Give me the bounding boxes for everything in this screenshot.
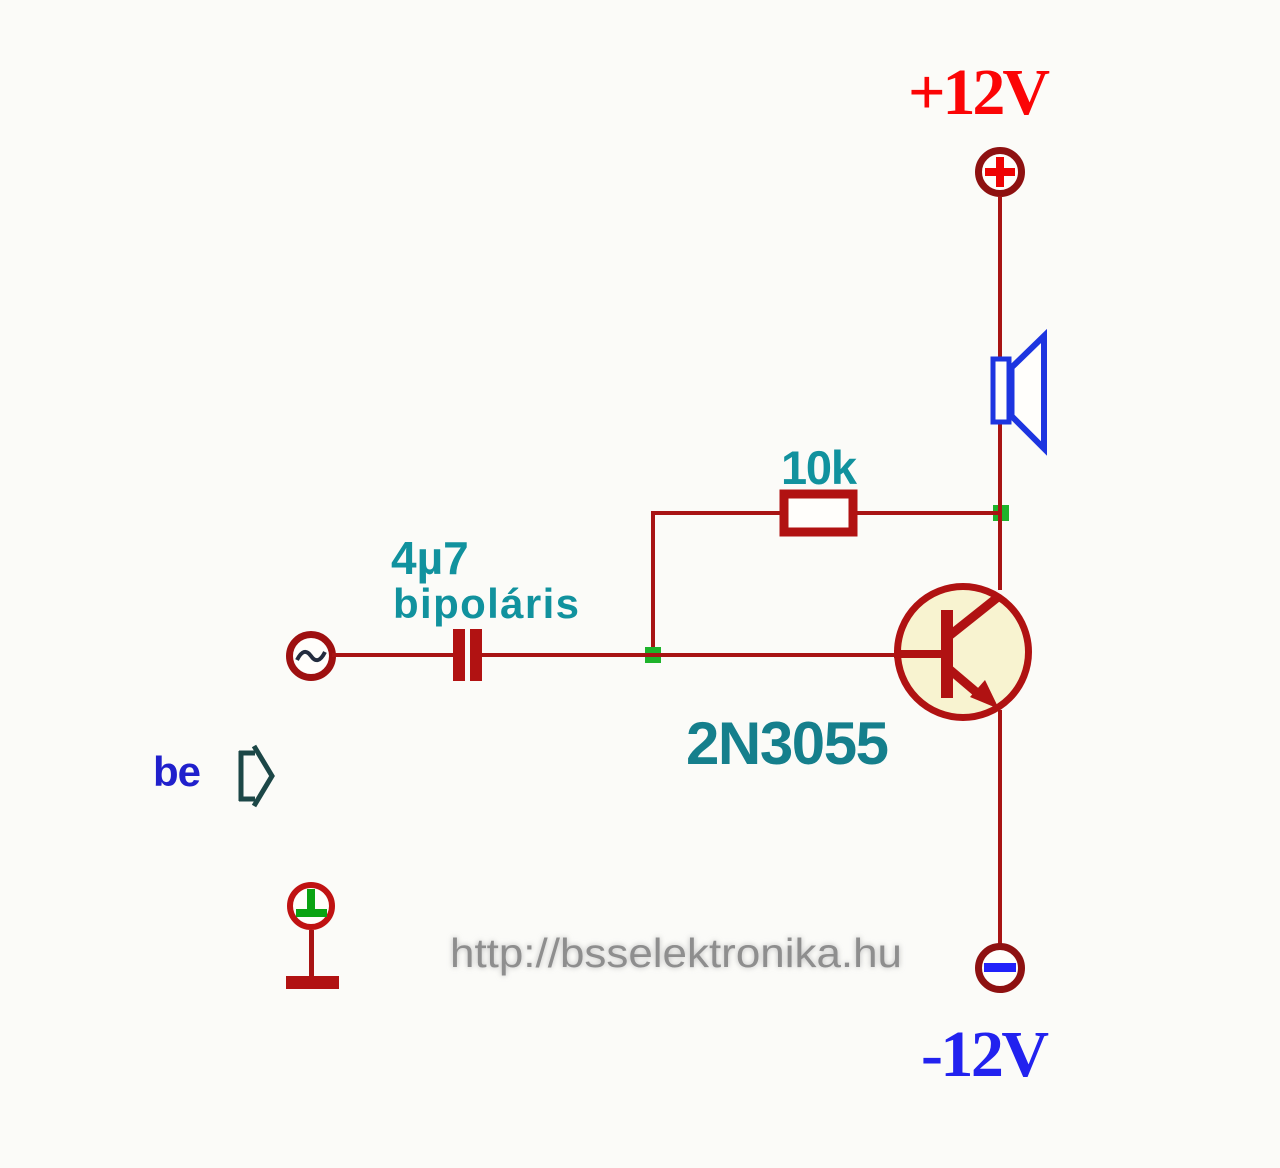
speaker [993,336,1044,449]
wire base node to resistor [653,511,781,515]
svg-text:-12V: -12V [921,1018,1049,1091]
wire resistor to collector node [857,511,1002,515]
AC source [290,635,333,678]
wire collector node vertical through junction [998,503,1002,524]
svg-text:http://bsselektronika.hu: http://bsselektronika.hu [450,930,902,976]
port be [239,746,272,806]
power terminal -12V [979,947,1022,990]
power terminal +12V [979,151,1022,194]
capacitor 4µ7 bipoláris [453,629,482,681]
wire capacitor to base [482,653,899,657]
svg-text:2N3055: 2N3055 [686,710,889,777]
transistor 2N3055 [894,587,1029,718]
svg-text:10k: 10k [781,441,858,494]
svg-text:4µ7: 4µ7 [391,532,469,584]
wire source to capacitor [332,653,453,657]
wire over base junction [644,653,662,657]
junction base node [645,647,661,663]
junction collector node [993,505,1009,521]
svg-text:+12V: +12V [908,56,1050,129]
wire vertical down to base node [651,511,655,655]
watermark http://bsselektronika.hu [450,930,902,976]
resistor 10k [784,494,853,532]
svg-text:be: be [153,748,201,795]
wire +12V terminal to speaker/collector [998,196,1002,590]
wire emitter to -12V terminal [998,710,1002,944]
ground [286,885,339,989]
